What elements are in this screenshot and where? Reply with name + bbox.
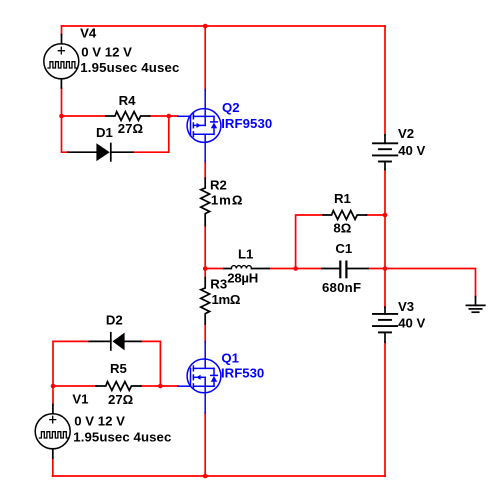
svg-text:R5: R5 (110, 361, 127, 376)
svg-text:1mΩ: 1mΩ (211, 192, 243, 207)
svg-text:V2: V2 (398, 126, 414, 141)
svg-text:IRF9530: IRF9530 (221, 116, 272, 131)
svg-text:Q1: Q1 (221, 350, 239, 365)
svg-text:40 V: 40 V (398, 315, 425, 330)
svg-text:Q2: Q2 (222, 100, 240, 115)
svg-text:40 V: 40 V (398, 143, 425, 158)
svg-text:R2: R2 (210, 177, 227, 192)
svg-text:R4: R4 (119, 93, 137, 108)
svg-text:V1: V1 (72, 391, 88, 406)
svg-text:V4: V4 (80, 26, 97, 41)
svg-text:V3: V3 (398, 299, 414, 314)
svg-text:IRF530: IRF530 (221, 366, 264, 381)
svg-text:R3: R3 (210, 276, 227, 291)
svg-text:8Ω: 8Ω (333, 221, 351, 236)
svg-text:D2: D2 (106, 312, 123, 327)
svg-text:27Ω: 27Ω (118, 121, 144, 136)
svg-text:D1: D1 (96, 125, 113, 140)
svg-text:0 V 12 V: 0 V 12 V (81, 44, 132, 59)
svg-text:1mΩ: 1mΩ (212, 292, 241, 307)
svg-text:1.95usec 4usec: 1.95usec 4usec (80, 60, 179, 75)
svg-text:28µH: 28µH (227, 271, 258, 286)
svg-text:680nF: 680nF (322, 280, 361, 295)
svg-text:27Ω: 27Ω (108, 392, 134, 407)
svg-text:1.95usec 4usec: 1.95usec 4usec (73, 430, 171, 445)
svg-text:R1: R1 (334, 191, 351, 206)
svg-text:L1: L1 (238, 247, 253, 262)
svg-text:0 V 12 V: 0 V 12 V (74, 414, 125, 429)
svg-text:C1: C1 (335, 241, 352, 256)
